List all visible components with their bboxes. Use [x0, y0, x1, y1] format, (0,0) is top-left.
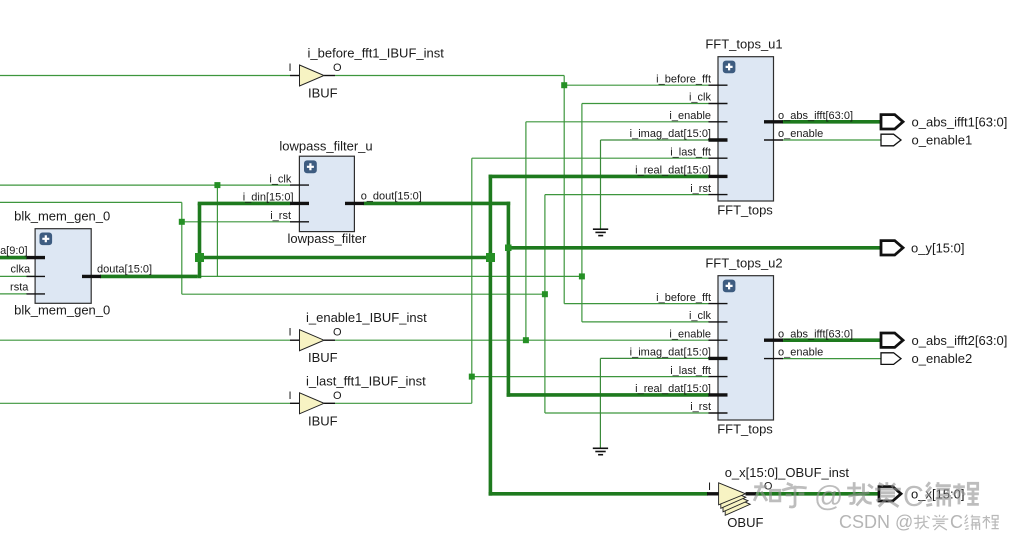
- wire u1 i_before_fft pin feed: [564, 84, 709, 86]
- port o_x[15:0]: [879, 487, 901, 501]
- junction i_clk at (581.9,276.4): [579, 273, 585, 279]
- pin stub u2 i_rst: [709, 412, 728, 414]
- bus o_dout from lowpass: [364, 202, 511, 206]
- pin stub u2 i_clk: [709, 321, 728, 323]
- wire i_enable IBUF2 out long horizontal to u2 pin: [335, 339, 709, 341]
- svg-text:i_rst: i_rst: [690, 183, 711, 195]
- pin stub u1 i_last_fft: [709, 157, 728, 159]
- pin stub IBUF2 output: [324, 339, 335, 341]
- pin stub IBUF2 input: [290, 339, 300, 341]
- wire net i_enable: input to IBUF2: [0, 339, 290, 341]
- svg-text:i_enable1_IBUF_inst: i_enable1_IBUF_inst: [306, 310, 427, 325]
- wire u1 i_last_fft pin feed: [472, 157, 709, 159]
- svg-text:i_real_dat[15:0]: i_real_dat[15:0]: [635, 165, 711, 177]
- bus u1 o_abs_ifft to port o_abs_ifft1: [783, 120, 882, 124]
- svg-text:FFT_tops: FFT_tops: [717, 422, 773, 437]
- svg-text:i_rst: i_rst: [690, 401, 711, 413]
- svg-text:i_before_fft1_IBUF_inst: i_before_fft1_IBUF_inst: [308, 46, 445, 61]
- pin stub IBUF3 output: [324, 402, 335, 404]
- pin stub lowpass i_din bus: [290, 202, 309, 205]
- svg-text:O: O: [333, 327, 342, 339]
- pin stub u1 i_real_dat bus: [709, 175, 728, 178]
- pin stub u1 i_enable: [709, 121, 728, 123]
- svg-text:o_abs_ifft1[63:0]: o_abs_ifft1[63:0]: [912, 114, 1008, 129]
- pin stub clka: [27, 275, 46, 277]
- svg-text:douta[15:0]: douta[15:0]: [97, 264, 152, 276]
- pin stub u2 i_real_dat bus: [709, 393, 728, 396]
- block FFT_tops_u1: [718, 57, 774, 201]
- wire gnd1 vertical: [600, 140, 602, 229]
- bus i_din feed to lowpass: [198, 202, 291, 206]
- svg-text:i_clk: i_clk: [269, 173, 292, 185]
- junction douta branch at (199.5,257.5): [195, 253, 204, 262]
- svg-text:o_abs_ifft[63:0]: o_abs_ifft[63:0]: [778, 110, 853, 122]
- junction i_rst at (181.8,221.8): [179, 219, 185, 225]
- bus u2 o_abs_ifft to port o_abs_ifft2: [783, 338, 882, 342]
- wire i_clk vertical x=582: [581, 104, 583, 322]
- wire i_last IBUF3 out horizontal: [335, 402, 472, 404]
- svg-text:i_last_fft1_IBUF_inst: i_last_fft1_IBUF_inst: [306, 373, 426, 388]
- wire u2 o_enable to port o_enable2: [783, 358, 882, 360]
- svg-text:O: O: [333, 390, 342, 402]
- pin stub OBUF output bus: [746, 492, 757, 495]
- pin stub u2 i_before_fft: [709, 303, 728, 305]
- svg-text:i_clk: i_clk: [689, 92, 712, 104]
- wire gnd2 vertical: [599, 358, 601, 448]
- svg-text:I: I: [288, 327, 291, 339]
- bus douta branch row 257.5: [200, 256, 491, 260]
- wire net i_clk: left horizontal to lowpass i_clk: [0, 184, 291, 186]
- junction i_clk at (217.4,185.1): [214, 182, 220, 188]
- pin stub u2 o_abs_ifft bus: [764, 339, 783, 342]
- svg-text:o_dout[15:0]: o_dout[15:0]: [361, 191, 422, 203]
- wire rsta feed from left edge: [0, 293, 27, 295]
- buffer OBUF o_x[15:0]_OBUF_inst stacked: [719, 483, 751, 516]
- bus u1 i_real_dat feed: [489, 175, 709, 179]
- pin stub IBUF1 output: [324, 75, 335, 77]
- wire u1 i_enable pin feed: [526, 121, 709, 123]
- wire i_last vertical x=472: [471, 158, 473, 403]
- svg-text:o_abs_ifft2[63:0]: o_abs_ifft2[63:0]: [912, 333, 1008, 348]
- wire net i_before_fft: input to IBUF1: [0, 75, 290, 77]
- pin stub lowpass i_rst: [290, 221, 309, 223]
- svg-text:I: I: [708, 481, 711, 493]
- pin stub u2 i_last_fft: [709, 376, 728, 378]
- buffer IBUF i_before_fft1_IBUF_inst: [300, 65, 325, 86]
- bus u2 i_real_dat feed: [507, 393, 709, 397]
- port o_abs_ifft1[63:0]: [881, 115, 903, 129]
- svg-text:o_enable: o_enable: [778, 128, 823, 140]
- svg-text:i_rst: i_rst: [270, 210, 291, 222]
- svg-text:FFT_tops_u2: FFT_tops_u2: [705, 256, 782, 271]
- wire net i_before_fft buffered: IBUF1 out to vertical: [335, 75, 564, 77]
- svg-text:FFT_tops_u1: FFT_tops_u1: [705, 37, 782, 52]
- pin stub u1 o_abs_ifft bus: [764, 120, 783, 123]
- svg-text:i_enable: i_enable: [669, 328, 711, 340]
- block blk_mem_gen_0: [35, 229, 91, 304]
- bus douta vertical x=199.5: [198, 203, 202, 278]
- svg-text:i_before_fft: i_before_fft: [656, 73, 711, 85]
- svg-text:i_real_dat[15:0]: i_real_dat[15:0]: [635, 383, 711, 395]
- port o_y[15:0]: [881, 241, 903, 255]
- wire i_clk vertical x=217: [216, 185, 218, 276]
- buffer IBUF i_last_fft1_IBUF_inst: [300, 393, 325, 414]
- wire u2 i_rst pin feed: [545, 412, 709, 414]
- svg-text:O: O: [333, 62, 342, 74]
- wire u1 i_rst pin feed: [545, 194, 709, 196]
- block lowpass_filter_u: [299, 156, 354, 231]
- wire u2 i_before_fft pin feed: [564, 303, 709, 305]
- pin stub addra[9:0] bus: [27, 256, 46, 259]
- wire u2 i_imag_dat gnd feed: [600, 357, 709, 359]
- svg-text:IBUF: IBUF: [308, 413, 338, 428]
- wire i_rst vertical x=182: [181, 202, 183, 294]
- svg-text:o_enable: o_enable: [778, 347, 823, 359]
- watermark zhihu line: [754, 481, 979, 513]
- pin stub u1 i_imag_dat bus: [709, 138, 728, 141]
- wire u1 i_clk pin feed: [582, 103, 709, 105]
- pin stub u1 i_before_fft: [709, 84, 728, 86]
- wire u2 i_last_fft pin feed: [472, 376, 709, 378]
- port o_abs_ifft2[63:0]: [881, 333, 903, 347]
- svg-text:C: C: [950, 512, 963, 532]
- svg-text:OBUF: OBUF: [727, 515, 763, 530]
- svg-text:blk_mem_gen_0: blk_mem_gen_0: [14, 303, 110, 318]
- pin stub OBUF input bus: [707, 492, 719, 495]
- svg-text:i_clk: i_clk: [689, 310, 712, 322]
- port o_enable2: [881, 353, 901, 365]
- ground GND1 (u1 i_imag_dat): [593, 229, 608, 235]
- pin stub u2 i_enable: [709, 339, 728, 341]
- svg-text:CSDN @: CSDN @: [839, 512, 913, 532]
- wire net i_rst: left horizontal row 202: [0, 201, 182, 203]
- svg-text:rsta: rsta: [10, 282, 29, 294]
- bus o_y to port: [508, 246, 881, 250]
- svg-text:o_enable1: o_enable1: [912, 133, 973, 148]
- bus douta from blk_mem: [100, 275, 198, 279]
- junction i_before at (564.2,83): [561, 82, 567, 88]
- port o_enable1: [881, 134, 901, 146]
- svg-text:i_din[15:0]: i_din[15:0]: [243, 192, 294, 204]
- svg-text:i_last_fft: i_last_fft: [670, 146, 711, 158]
- pin stub rsta: [27, 293, 46, 295]
- block FFT_tops_u2: [718, 276, 774, 420]
- junction i_rst at (544.9,294.2): [542, 291, 548, 297]
- wire i_enable vertical x=526: [525, 122, 527, 340]
- pin stub lowpass o_dout bus: [345, 202, 364, 205]
- wire net i_last_fft: input to IBUF3: [0, 402, 290, 404]
- pin stub IBUF3 input: [290, 402, 300, 404]
- pin stub u1 i_clk: [709, 103, 728, 105]
- svg-text:blk_mem_gen_0: blk_mem_gen_0: [14, 209, 110, 224]
- pin stub u1 i_rst: [709, 194, 728, 196]
- wire i_clk long horizontal row 276: [0, 275, 582, 277]
- svg-text:o_abs_ifft[63:0]: o_abs_ifft[63:0]: [778, 328, 853, 340]
- svg-text:@: @: [814, 481, 843, 513]
- svg-text:i_before_fft: i_before_fft: [656, 292, 711, 304]
- junction o_y branch at (508.4,247.8): [505, 245, 512, 252]
- bus o_dout vertical x=508: [507, 202, 511, 397]
- svg-text:lowpass_filter: lowpass_filter: [288, 231, 367, 246]
- pin stub u1 o_enable: [764, 139, 783, 141]
- buffer IBUF i_enable1_IBUF_inst: [300, 330, 325, 351]
- junction douta to OBUF at (490.4,257.5): [486, 253, 495, 262]
- svg-text:i_last_fft: i_last_fft: [670, 365, 711, 377]
- svg-text:a[9:0]: a[9:0]: [0, 245, 28, 257]
- svg-text:I: I: [288, 390, 291, 402]
- svg-text:i_imag_dat[15:0]: i_imag_dat[15:0]: [630, 347, 711, 359]
- svg-text:clka: clka: [11, 264, 31, 276]
- wire u1 o_enable to port o_enable1: [783, 139, 882, 141]
- svg-text:lowpass_filter_u: lowpass_filter_u: [279, 139, 372, 154]
- wire i_rst vertical x=545: [544, 195, 546, 413]
- bus addra[9:0] from left edge: [0, 256, 27, 260]
- wire lowpass i_rst pin feed: [182, 221, 291, 223]
- svg-text:FFT_tops: FFT_tops: [717, 203, 773, 218]
- pin stub douta[15:0] bus: [82, 275, 101, 278]
- svg-text:o_x[15:0]_OBUF_inst: o_x[15:0]_OBUF_inst: [725, 465, 850, 480]
- bus douta vertical x=490 down to OBUF: [489, 175, 493, 496]
- svg-text:o_enable2: o_enable2: [912, 351, 973, 366]
- bus OBUF input feed row 494: [489, 492, 708, 496]
- pin stub IBUF1 input: [290, 75, 300, 77]
- bus OBUF output to port o_x: [755, 492, 879, 496]
- svg-text:C: C: [903, 481, 924, 513]
- pin stub u2 o_enable: [764, 358, 783, 360]
- wire i_rst horizontal row 294: [182, 293, 545, 295]
- junction i_enable at (525.9,339.2): [523, 337, 529, 343]
- ground GND2 (u2 i_imag_dat): [593, 448, 608, 454]
- svg-text:i_imag_dat[15:0]: i_imag_dat[15:0]: [630, 128, 711, 140]
- svg-text:I: I: [288, 62, 291, 74]
- svg-text:i_enable: i_enable: [669, 110, 711, 122]
- wire u1 i_imag_dat gnd feed: [601, 139, 710, 141]
- pin stub lowpass i_clk: [290, 184, 309, 186]
- pin stub u2 i_imag_dat bus: [709, 357, 728, 360]
- svg-text:IBUF: IBUF: [308, 350, 338, 365]
- wire vertical x=564 i_before net: [563, 76, 565, 304]
- watermark csdn line: [839, 512, 999, 532]
- svg-text:IBUF: IBUF: [308, 86, 338, 101]
- junction i_last at (471.8,375.3): [469, 374, 475, 380]
- wire u2 i_clk pin feed: [582, 321, 709, 323]
- svg-text:o_y[15:0]: o_y[15:0]: [911, 240, 965, 255]
